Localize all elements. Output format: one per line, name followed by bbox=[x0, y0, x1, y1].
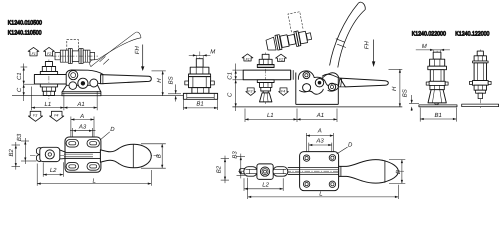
icon F4 (right, down) bbox=[279, 88, 289, 96]
H dimension left bbox=[152, 70, 166, 72]
spindle 2 washer bbox=[473, 61, 489, 63]
svg-text:K1240.122000: K1240.122000 bbox=[455, 31, 490, 38]
boss circles bbox=[260, 167, 269, 176]
svg-text:B3: B3 bbox=[232, 151, 239, 159]
spindle mounting detail (horizontal screw in arm), left group bbox=[52, 40, 99, 64]
svg-text:BS: BS bbox=[168, 76, 175, 84]
lever wave into sleeve bbox=[322, 74, 340, 87]
BS dimension left bbox=[168, 93, 181, 95]
right spindle tip bbox=[262, 54, 269, 59]
svg-text:F2: F2 bbox=[47, 52, 51, 56]
dashed arm box bbox=[288, 12, 303, 32]
block outline bbox=[296, 73, 339, 105]
svg-text:L2: L2 bbox=[262, 181, 269, 188]
B2 dimension right bbox=[221, 156, 229, 184]
svg-text:F1: F1 bbox=[246, 57, 250, 61]
svg-text:A1: A1 bbox=[316, 112, 324, 119]
svg-text:FH: FH bbox=[364, 41, 371, 50]
svg-text:F2: F2 bbox=[279, 58, 283, 62]
lower washer bbox=[40, 84, 57, 87]
svg-text:F3: F3 bbox=[33, 114, 37, 118]
left stub bbox=[55, 52, 60, 59]
svg-text:K1240.110500: K1240.110500 bbox=[8, 29, 42, 36]
washer front bbox=[189, 74, 211, 77]
slot top-left bbox=[66, 140, 78, 148]
L1/A1 dimension right bbox=[245, 109, 337, 123]
arm in top view bbox=[60, 150, 101, 159]
ground line right bbox=[232, 106, 402, 108]
svg-text:H: H bbox=[391, 86, 398, 91]
bar joint lines bbox=[291, 70, 293, 80]
arm through plate bbox=[300, 167, 339, 174]
svg-text:D: D bbox=[348, 141, 353, 148]
arm to plate bbox=[288, 167, 300, 174]
spindle 2 stem bbox=[478, 93, 482, 98]
spindle 2 hex nut bbox=[474, 56, 486, 61]
spindle 2 tip bbox=[477, 51, 483, 56]
spindle 1 nub bbox=[435, 103, 439, 105]
H dimension right bbox=[389, 68, 403, 70]
rubber foot cone bbox=[260, 93, 272, 102]
svg-text:A1: A1 bbox=[76, 101, 84, 108]
svg-text:C: C bbox=[16, 87, 23, 92]
pivot circle 2 (handle pin) bbox=[78, 78, 88, 88]
left hex nut bbox=[60, 50, 68, 62]
right upper hex nut bbox=[259, 59, 272, 64]
left lug capsule bbox=[244, 167, 257, 177]
base plate with slots bbox=[65, 137, 101, 172]
hole top-right bbox=[329, 155, 335, 161]
right spindle centerline bbox=[265, 53, 267, 105]
slot bottom-left bbox=[66, 163, 78, 171]
B2 dimension (left) bbox=[12, 142, 21, 170]
knob seam bbox=[132, 144, 134, 167]
spindle 1 foot cone bbox=[428, 90, 446, 103]
spindle tip bbox=[45, 62, 52, 67]
centerline right top view bbox=[238, 170, 404, 172]
arm slot lines right bbox=[288, 170, 338, 173]
spindle 1 shank bbox=[433, 52, 441, 59]
head boss circle bbox=[45, 150, 54, 159]
B1 dimension (front view) bbox=[183, 100, 217, 110]
pivot circle 1 (arm pin) bbox=[69, 71, 78, 80]
svg-text:B3: B3 bbox=[16, 133, 23, 141]
upper washer bbox=[40, 72, 57, 75]
pivot circle 4 (lower pin) bbox=[69, 82, 77, 90]
svg-text:M: M bbox=[422, 43, 427, 50]
spindle 1 lug washer bbox=[429, 81, 445, 85]
handle grip right (slightly tilted) bbox=[340, 78, 388, 87]
foot block bbox=[266, 37, 276, 51]
handle upright (open position) bbox=[330, 2, 366, 67]
head left tab upper bbox=[36, 148, 42, 155]
icon F3 (down) bbox=[28, 111, 42, 121]
svg-text:A: A bbox=[317, 128, 322, 135]
svg-text:C: C bbox=[227, 92, 234, 97]
B dimension right top view bbox=[389, 160, 405, 184]
svg-text:B1: B1 bbox=[196, 100, 203, 107]
hole bottom-left bbox=[303, 181, 309, 187]
clamp head outer bbox=[40, 147, 60, 161]
C/C1 dimension right bbox=[233, 64, 244, 112]
center piece bbox=[287, 34, 295, 45]
lower nut front bbox=[192, 88, 209, 94]
svg-text:A3: A3 bbox=[78, 124, 87, 131]
head left tab lower bbox=[36, 155, 42, 162]
svg-text:L: L bbox=[93, 177, 96, 184]
handle grip (closed position) bbox=[101, 75, 152, 84]
BS dimension right bbox=[409, 102, 419, 104]
knob right top view bbox=[339, 160, 399, 183]
center block under arm bbox=[72, 51, 79, 62]
svg-text:M: M bbox=[210, 49, 215, 56]
svg-text:K1240.010500: K1240.010500 bbox=[8, 19, 43, 26]
lower hex nut bbox=[42, 87, 55, 91]
svg-text:L2: L2 bbox=[50, 167, 57, 174]
spindle shank front bbox=[196, 59, 203, 67]
L2 dimension right top view bbox=[244, 178, 283, 191]
svg-text:B1: B1 bbox=[435, 112, 442, 119]
lower hex nut 2 bbox=[43, 91, 54, 95]
A dimension right top view bbox=[306, 133, 333, 152]
axis centerline bbox=[52, 55, 99, 57]
hole top-left bbox=[303, 155, 309, 161]
arm cross-section front bbox=[189, 77, 211, 88]
stub bbox=[306, 33, 311, 40]
toggle lever plate bbox=[66, 70, 103, 91]
tilted spindle mounting detail (right group) bbox=[262, 11, 312, 52]
grip sleeve lines right bbox=[338, 78, 345, 87]
right arm bar bbox=[243, 70, 290, 80]
svg-text:A3: A3 bbox=[315, 138, 324, 145]
nut right bbox=[299, 31, 308, 44]
svg-text:F3: F3 bbox=[248, 89, 252, 93]
svg-text:F4: F4 bbox=[281, 89, 285, 93]
spindle 2 nut below bbox=[474, 85, 486, 90]
B3 dimension (left) bbox=[21, 138, 36, 164]
spindle 1 body bbox=[430, 70, 444, 82]
boss square bbox=[257, 164, 273, 180]
knob seam right bbox=[384, 160, 386, 183]
svg-text:L1: L1 bbox=[45, 101, 52, 108]
A dimension (left top view) bbox=[71, 117, 94, 138]
slot top-right bbox=[87, 140, 99, 148]
slot bottom-right bbox=[87, 163, 99, 171]
spindle 2 body bbox=[474, 63, 486, 81]
spindle 1 nut below bbox=[430, 85, 444, 89]
svg-text:D: D bbox=[110, 126, 115, 133]
right lower hex nut bbox=[260, 83, 272, 88]
L dimension (left top view) bbox=[37, 164, 151, 186]
icon F4 (down) bbox=[50, 111, 64, 121]
spindle 1 centerline bbox=[436, 51, 438, 108]
base rail front bbox=[183, 93, 217, 99]
spindle 2 centerline bbox=[479, 50, 481, 109]
mounting body trapezoid bbox=[62, 85, 101, 92]
link plate outline bbox=[298, 71, 329, 87]
hex nut front bbox=[190, 67, 209, 74]
grip sleeve line bbox=[102, 75, 104, 84]
svg-text:L1: L1 bbox=[267, 112, 274, 119]
block bottom wave bbox=[299, 89, 323, 94]
arm slot lines bbox=[64, 154, 93, 157]
front view centerline bbox=[199, 52, 201, 102]
svg-text:B2: B2 bbox=[8, 148, 15, 156]
right stub bbox=[90, 52, 95, 59]
pivot circle 3 (link pin) bbox=[90, 79, 98, 87]
centerline bbox=[30, 154, 160, 156]
right pivot circle E bbox=[328, 83, 335, 90]
L dimension right top view bbox=[248, 178, 399, 199]
hole bottom-right bbox=[329, 181, 335, 187]
icon F2 (right view) bbox=[276, 54, 287, 62]
icon F3 (right, down) bbox=[246, 88, 256, 96]
A3 dimension (left top view) bbox=[70, 128, 96, 137]
spindle 1 hex nut bbox=[430, 59, 445, 66]
nut bbox=[280, 35, 289, 48]
B1 dimension spindle 1 bbox=[420, 108, 456, 122]
spindle 2 lug washer bbox=[472, 81, 488, 86]
rod tip bbox=[239, 168, 246, 173]
side ears (lug washer front) bbox=[185, 81, 189, 85]
pivot block right bbox=[291, 70, 339, 104]
spindle 2 washer 2 bbox=[476, 90, 486, 93]
washers left bbox=[68, 49, 70, 64]
right lower washer bbox=[257, 80, 274, 83]
B3 dimension right bbox=[237, 154, 246, 179]
B dimension (left top view) bbox=[141, 144, 166, 168]
spindle centerline bbox=[48, 60, 50, 100]
base plate right top view bbox=[300, 152, 339, 191]
svg-text:FH: FH bbox=[134, 46, 141, 55]
svg-text:B: B bbox=[395, 170, 402, 174]
icon F2 (left view) bbox=[44, 47, 55, 56]
right hex nut bbox=[83, 50, 90, 62]
spindle 2 base plate bbox=[462, 104, 499, 107]
upper hex nut bbox=[42, 67, 55, 72]
svg-text:F4: F4 bbox=[54, 114, 58, 118]
clamp arm bar bbox=[34, 75, 69, 85]
svg-text:B2: B2 bbox=[215, 165, 222, 173]
svg-text:BS: BS bbox=[402, 89, 409, 97]
icon F1 (left view) bbox=[28, 47, 39, 56]
svg-text:B: B bbox=[155, 154, 162, 158]
svg-text:C1: C1 bbox=[227, 72, 234, 80]
base plate bbox=[62, 92, 101, 96]
right upper washer bbox=[257, 65, 274, 68]
C/C1 dimension left bbox=[21, 64, 35, 102]
dashed arm cross-section box bbox=[67, 40, 79, 51]
svg-text:C1: C1 bbox=[16, 72, 23, 80]
handle knob top view bbox=[100, 144, 151, 168]
svg-text:A: A bbox=[79, 113, 84, 120]
right nut 2 bbox=[261, 87, 271, 91]
washers bbox=[294, 31, 299, 46]
washers right bbox=[79, 49, 81, 64]
svg-text:H: H bbox=[156, 78, 163, 83]
right pivot circle A bbox=[303, 72, 310, 79]
spindle 1 base plate bbox=[419, 105, 457, 107]
right pivot circle C bbox=[303, 84, 311, 92]
ground line bbox=[12, 95, 183, 97]
icon F1 (right view) bbox=[242, 54, 253, 62]
washers bbox=[275, 35, 280, 50]
svg-text:F1: F1 bbox=[32, 52, 36, 56]
phantom handle (open position) bbox=[90, 32, 141, 67]
spindle 1 washer bbox=[428, 66, 447, 70]
A3 dimension right top view bbox=[309, 143, 332, 152]
right lug capsule bbox=[273, 167, 288, 177]
L2 dimension (left top view) bbox=[43, 162, 63, 177]
right pivot circle B bbox=[315, 79, 323, 87]
svg-text:K1240.022000: K1240.022000 bbox=[412, 31, 447, 38]
foot stem bbox=[263, 91, 268, 93]
L1 / A1 dimension bbox=[31, 87, 97, 111]
svg-text:L: L bbox=[319, 190, 322, 197]
